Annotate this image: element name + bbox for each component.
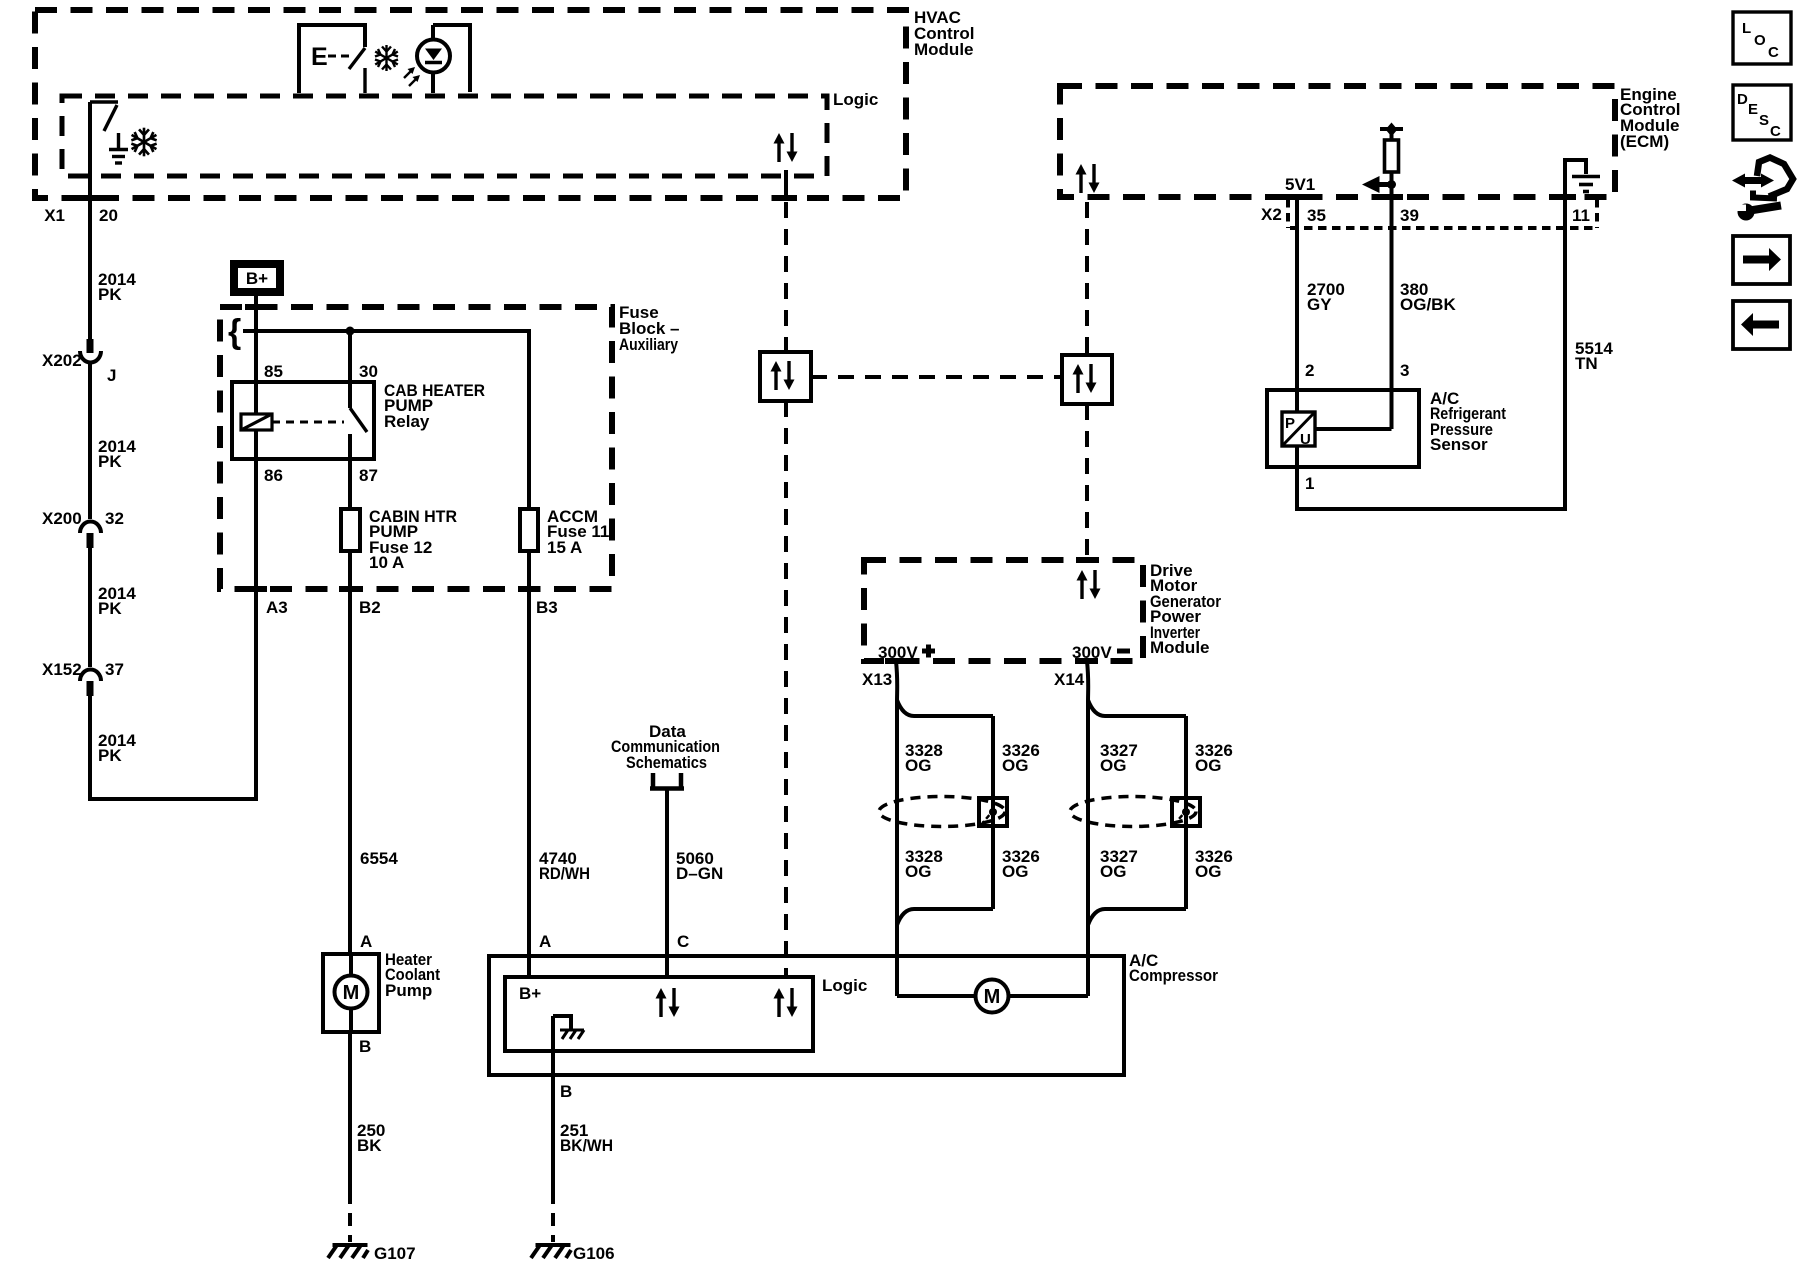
component box: A/C Compressor xyxy=(489,951,1218,1075)
ground G106 xyxy=(531,1244,615,1263)
icon: diagnostic route arrows with wrench xyxy=(1732,158,1793,221)
svg-text:J: J xyxy=(107,366,116,385)
relay coil xyxy=(241,414,272,430)
dashed data wire between splice boxes xyxy=(811,375,1062,379)
wire relay 87 to fuse 12 xyxy=(348,434,352,509)
heater element switch icon (E) in HVAC module xyxy=(299,25,365,93)
fuse: ACCM Fuse 11 15 A xyxy=(520,507,609,557)
svg-text:OG/BK: OG/BK xyxy=(1400,295,1456,314)
component: A/C Refrigerant Pressure Sensor xyxy=(1267,389,1506,467)
relay contact blade xyxy=(350,408,367,432)
svg-text:PK: PK xyxy=(98,285,122,304)
data link arrows inside ECM xyxy=(1076,164,1100,193)
data link arrows inside compressor logic xyxy=(656,988,680,1017)
svg-text:B+: B+ xyxy=(519,984,541,1003)
svg-text:Relay: Relay xyxy=(384,412,430,431)
svg-text:A3: A3 xyxy=(266,598,288,617)
svg-text:X200: X200 xyxy=(42,509,82,528)
svg-text:S: S xyxy=(1759,112,1769,129)
svg-text:X2: X2 xyxy=(1261,205,1282,224)
svg-text:PK: PK xyxy=(98,599,122,618)
svg-text:OG: OG xyxy=(1100,862,1126,881)
svg-text:B+: B+ xyxy=(246,269,268,288)
svg-text:OG: OG xyxy=(1002,756,1028,775)
twisted pair 2 splice box xyxy=(1172,798,1200,826)
svg-text:M: M xyxy=(343,982,360,1004)
wire: circuit 2700 GY, ECM 35 to sensor pin 2 xyxy=(1295,197,1299,412)
icon: back arrow box xyxy=(1733,301,1790,349)
svg-text:B3: B3 xyxy=(536,598,558,617)
svg-text:Schematics: Schematics xyxy=(626,753,707,772)
svg-text:E: E xyxy=(311,43,328,71)
svg-text:OG: OG xyxy=(1100,756,1126,775)
svg-text:X152: X152 xyxy=(42,660,82,679)
wire: circuit 3328 OG (300V+) main conductor xyxy=(896,661,897,996)
wire 2014 PK segment 2 xyxy=(88,364,92,519)
snowflake icon (A/C) top xyxy=(375,45,398,71)
terminal label 300V- xyxy=(1072,643,1130,662)
svg-text:D–GN: D–GN xyxy=(676,864,723,883)
svg-text:B2: B2 xyxy=(359,598,381,617)
wire 2014 PK segment 3 xyxy=(88,546,92,667)
svg-text:300V: 300V xyxy=(1072,643,1112,662)
svg-text:L: L xyxy=(1742,20,1751,37)
B+ bus wire inside fuse block xyxy=(243,331,529,509)
relay coil-to-contact dashed link xyxy=(272,421,344,424)
data link arrows inside HVAC logic box xyxy=(774,133,798,162)
ground G107 xyxy=(328,1244,416,1263)
wire resistor to sensor pin 3 xyxy=(1390,172,1394,429)
off-page bracket symbol xyxy=(650,773,684,789)
svg-text:30: 30 xyxy=(359,362,378,381)
fuse: CABIN HTR PUMP Fuse 12 10 A xyxy=(341,507,457,572)
svg-text:OG: OG xyxy=(1195,862,1221,881)
wire label 380 OG/BK xyxy=(1400,280,1456,314)
terminal label 300V+ xyxy=(878,643,935,662)
wire: serial data from HVAC logic xyxy=(784,170,788,196)
svg-text:Module: Module xyxy=(1150,638,1210,657)
connector X200 xyxy=(80,522,101,549)
svg-text:10 A: 10 A xyxy=(369,553,404,572)
ground symbol inside ECM (pin 11) xyxy=(1565,160,1600,192)
wire label 2014 PK xyxy=(98,731,136,765)
wire sensor pin 3 jog xyxy=(1315,427,1392,431)
svg-text:U: U xyxy=(1300,431,1311,448)
module box: Engine Control Module (ECM) xyxy=(1060,85,1680,197)
svg-text:1: 1 xyxy=(1305,474,1314,493)
pin tick at HVAC box exit xyxy=(79,195,101,201)
dashed ground lead G106 xyxy=(551,1191,555,1242)
logic sub-box of HVAC module xyxy=(62,90,878,176)
svg-text:85: 85 xyxy=(264,362,283,381)
wire label 4740 RD/WH xyxy=(539,849,590,883)
icon: LOC box xyxy=(1733,12,1791,64)
svg-text:G106: G106 xyxy=(573,1244,615,1263)
pull-up resistor inside ECM xyxy=(1380,123,1403,173)
svg-text:37: 37 xyxy=(105,660,124,679)
pressure transducer P/U symbol xyxy=(1282,412,1315,448)
svg-text:20: 20 xyxy=(99,206,118,225)
svg-text:Sensor: Sensor xyxy=(1430,435,1488,454)
svg-text:X13: X13 xyxy=(862,670,892,689)
compressor motor M xyxy=(897,980,1088,1013)
LED indicator icon in HVAC module xyxy=(404,25,470,93)
wire 2014 PK segment 4 with corner to relay pin 86 xyxy=(90,430,256,799)
5V reference tap arrow xyxy=(1362,176,1396,193)
wire labels 3328 OG / 3326 OG lower xyxy=(905,847,943,881)
svg-text:300V: 300V xyxy=(878,643,918,662)
svg-text:G107: G107 xyxy=(374,1244,416,1263)
svg-text:(ECM): (ECM) xyxy=(1620,132,1669,151)
svg-text:X14: X14 xyxy=(1054,670,1085,689)
wire labels 3327 OG / 3326 OG lower xyxy=(1100,847,1138,881)
icon: DESC box xyxy=(1733,85,1791,140)
svg-text:OG: OG xyxy=(1002,862,1028,881)
B+ power feed symbol xyxy=(234,264,280,292)
svg-text:BK: BK xyxy=(357,1136,382,1155)
wire: circuit 250 BK to ground xyxy=(348,1032,352,1191)
connector X202 xyxy=(80,339,101,363)
svg-text:OG: OG xyxy=(1195,756,1221,775)
twisted pair 1 splice box xyxy=(979,798,1007,826)
svg-text:PK: PK xyxy=(98,746,122,765)
snowflake icon inside logic box xyxy=(131,128,156,157)
svg-text:Compressor: Compressor xyxy=(1129,966,1218,985)
pin tick at fuse block entry xyxy=(245,304,267,310)
wire label 5514 TN xyxy=(1575,339,1613,373)
data link arrows inside inverter module xyxy=(1077,570,1101,599)
svg-text:C: C xyxy=(1768,44,1779,61)
svg-text:E: E xyxy=(1748,101,1758,118)
dashed data wire ECM to splice box 2 xyxy=(1085,202,1089,355)
svg-text:O: O xyxy=(1754,32,1766,49)
svg-text:A: A xyxy=(360,932,372,951)
pin tick at HVAC box exit xyxy=(775,195,797,201)
wire label 2014 PK xyxy=(98,437,136,471)
wire: circuit 5060 D-GN to compressor pin C xyxy=(665,790,669,977)
wire label 2700 GY xyxy=(1307,280,1345,314)
wire: circuit 4740 RD/WH, fuse 11 to compressor pin A xyxy=(527,551,531,977)
svg-text:35: 35 xyxy=(1307,206,1326,225)
svg-text:TN: TN xyxy=(1575,354,1598,373)
twisted pair 2 shield ellipse xyxy=(1070,797,1196,827)
svg-text:86: 86 xyxy=(264,466,283,485)
dashed data wire down to splice box xyxy=(784,202,788,352)
svg-text:C: C xyxy=(677,932,689,951)
icon: forward arrow box xyxy=(1733,236,1790,284)
module box: Drive Motor Generator Power Inverter Module xyxy=(864,560,1221,661)
wire label 250 BK xyxy=(357,1121,385,1155)
svg-text:11: 11 xyxy=(1572,206,1590,225)
dashed ground lead G107 xyxy=(348,1191,352,1242)
svg-text:Auxiliary: Auxiliary xyxy=(619,335,678,354)
wire: HVAC X1-20 circuit 2014 PK, upper segment xyxy=(88,102,92,340)
pin ticks at ECM bottom edge xyxy=(1286,194,1576,200)
svg-text:B: B xyxy=(560,1082,572,1101)
compressor logic sub-box xyxy=(505,976,867,1051)
data splice box 1 with arrows xyxy=(760,352,811,401)
svg-text:OG: OG xyxy=(905,862,931,881)
dashed data wire to A/C compressor logic xyxy=(784,401,788,975)
svg-text:A: A xyxy=(539,932,551,951)
svg-text:BK/WH: BK/WH xyxy=(560,1136,613,1155)
svg-text:X1: X1 xyxy=(44,206,65,225)
wire from B+ into fuse block xyxy=(254,296,258,414)
wire label 2014 PK xyxy=(98,270,136,304)
twisted pair 1 shield ellipse xyxy=(879,797,1005,827)
wire bus to relay pin 30 xyxy=(348,331,352,408)
svg-text:D: D xyxy=(1737,91,1748,108)
svg-text:PK: PK xyxy=(98,452,122,471)
relay: CAB HEATER PUMP Relay xyxy=(232,381,485,459)
data splice box 2 with arrows xyxy=(1062,355,1112,404)
svg-text:6554: 6554 xyxy=(360,849,398,868)
pin ticks at fuse block bottom xyxy=(245,586,540,592)
svg-text:Logic: Logic xyxy=(833,90,878,109)
X2 connector strip of ECM xyxy=(1288,199,1597,228)
wire: circuit 3327 OG (300V-) main conductor xyxy=(1087,661,1088,996)
svg-text:Module: Module xyxy=(914,40,974,59)
svg-text:P: P xyxy=(1285,415,1295,432)
svg-text:{: { xyxy=(228,313,241,351)
wire label 251 BK/WH xyxy=(560,1121,613,1155)
svg-text:OG: OG xyxy=(905,756,931,775)
internal ground symbol in compressor logic xyxy=(553,1016,584,1039)
svg-text:32: 32 xyxy=(105,509,124,528)
svg-text:15 A: 15 A xyxy=(547,538,582,557)
svg-text:B: B xyxy=(359,1037,371,1056)
wire: circuit 251 BK/WH to ground xyxy=(551,1016,555,1191)
module box: HVAC Control Module xyxy=(35,8,974,198)
svg-text:5V1: 5V1 xyxy=(1285,175,1315,194)
component: Heater Coolant Pump xyxy=(323,950,440,1032)
svg-text:M: M xyxy=(984,986,1001,1008)
pin ticks at inverter module edges xyxy=(885,560,1098,661)
module box: Fuse Block - Auxiliary xyxy=(220,303,679,589)
svg-text:RD/WH: RD/WH xyxy=(539,864,590,883)
ground-switch symbol inside logic box xyxy=(90,102,128,163)
svg-text:Pump: Pump xyxy=(385,981,432,1000)
wire label 2014 PK xyxy=(98,584,136,618)
twisted pair 2 companion wire 3326 OG xyxy=(1088,700,1186,925)
svg-text:2: 2 xyxy=(1305,361,1314,380)
data link arrows inside compressor logic (serial data) xyxy=(774,988,798,1017)
connector X152 xyxy=(80,670,101,697)
wire labels 3327 OG / 3326 OG upper xyxy=(1100,741,1138,775)
svg-text:39: 39 xyxy=(1400,206,1419,225)
svg-text:Logic: Logic xyxy=(822,976,867,995)
wire: circuit 6554, fuse 12 to heater coolant pump xyxy=(348,551,352,954)
dashed data wire splice box 2 to inverter module xyxy=(1085,404,1089,558)
svg-text:C: C xyxy=(1770,123,1781,140)
svg-text:87: 87 xyxy=(359,466,378,485)
svg-text:3: 3 xyxy=(1400,361,1409,380)
wire: circuit 5514 TN, sensor pin 1 to ECM 11 xyxy=(1297,172,1565,509)
junction dot on B+ bus xyxy=(346,327,355,336)
label: Data Communication Schematics xyxy=(611,722,720,772)
twisted pair 1 companion wire 3326 OG xyxy=(897,700,993,925)
svg-text:GY: GY xyxy=(1307,295,1332,314)
svg-text:X202: X202 xyxy=(42,351,82,370)
wire labels 3328 OG / 3326 OG upper xyxy=(905,741,943,775)
wire label 5060 D-GN xyxy=(676,849,723,883)
